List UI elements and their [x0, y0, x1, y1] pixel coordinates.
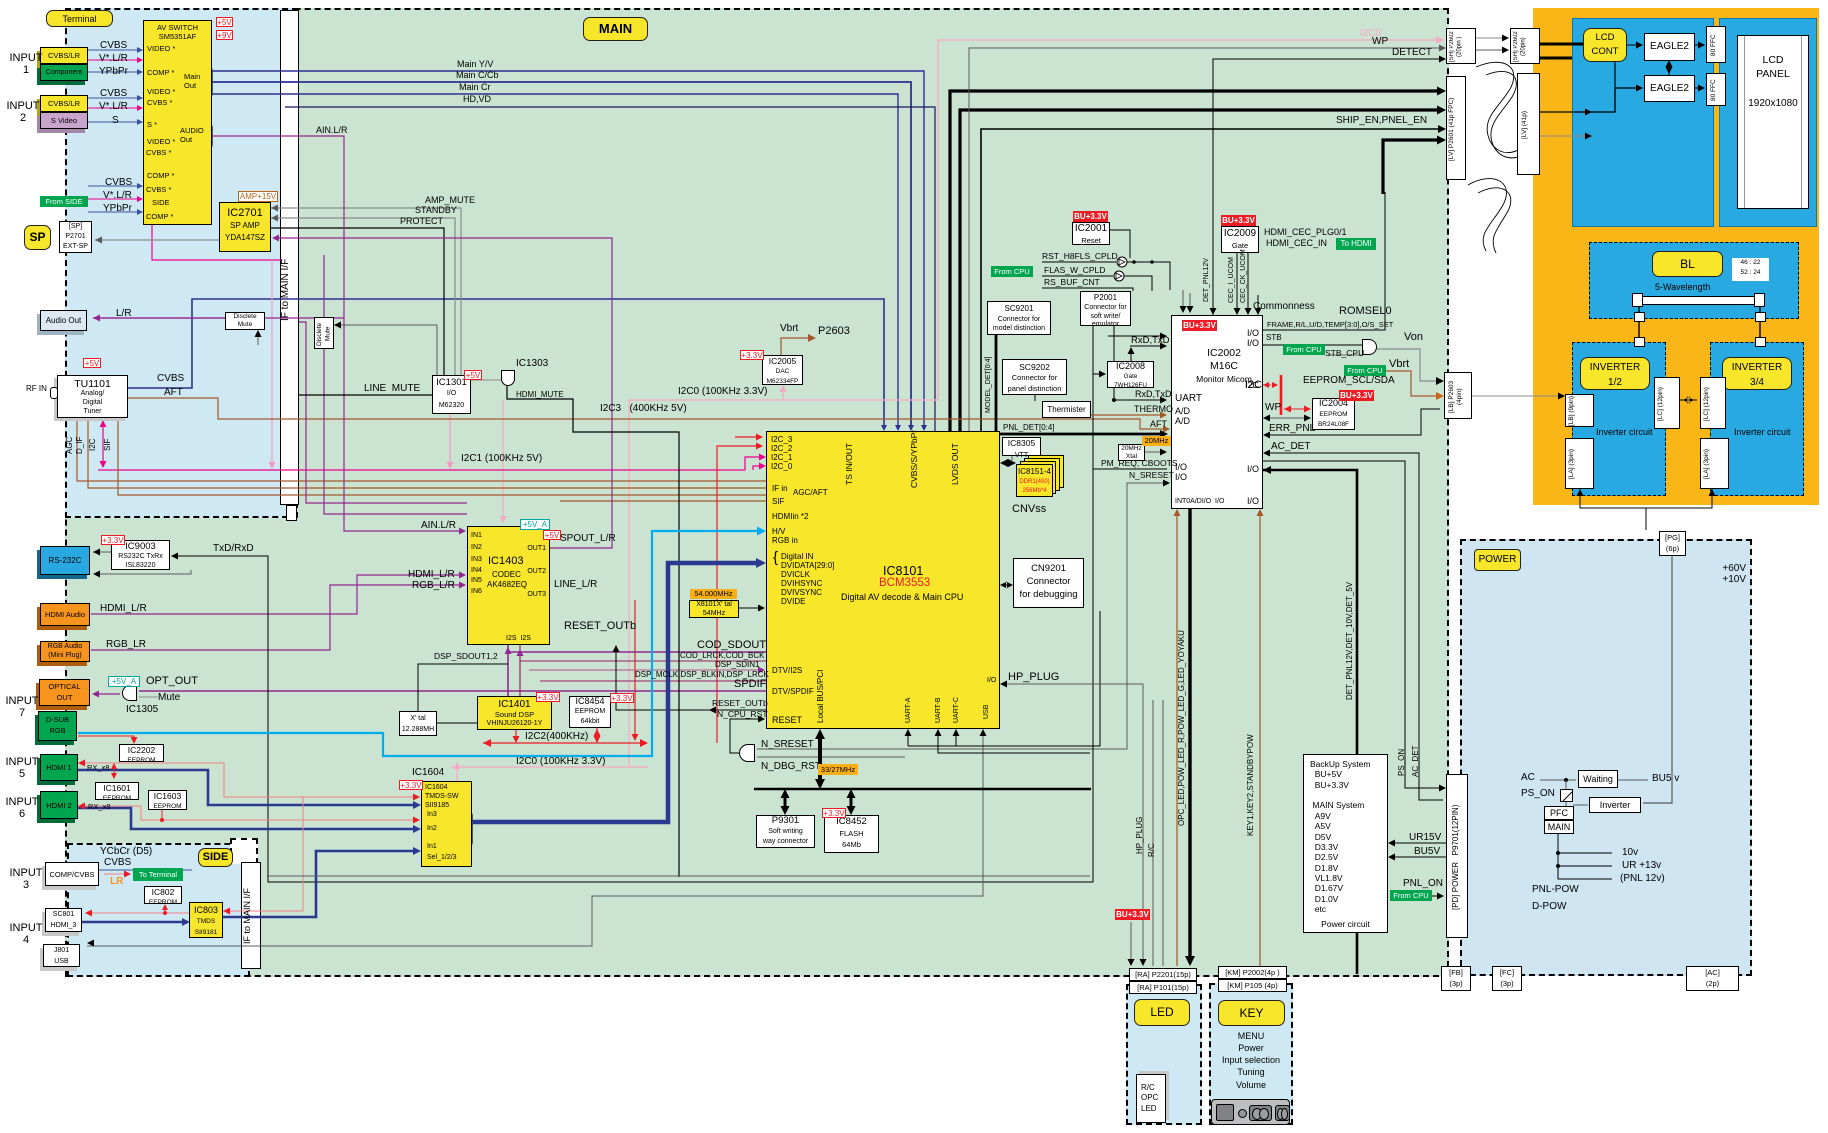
node INPUT 2 label — [3, 101, 43, 125]
node AC_DET label — [1271, 442, 1310, 453]
wire PNL_ON — [1432, 895, 1441, 897]
component PFC box — [1544, 806, 1574, 820]
wire OPT_OUT/SPDIF purple — [139, 690, 766, 692]
KEY region (light blue) — [1209, 983, 1293, 1125]
wire LCDCONT-EAGLE — [1627, 44, 1640, 46]
wire USB — [87, 732, 983, 946]
IC SC9201 — [987, 301, 1051, 335]
IC BackUp System power circuit — [1303, 754, 1388, 933]
wire COMP/CVBS to terminal red — [104, 873, 128, 875]
wire side audio purple 1 — [299, 322, 467, 503]
wire I2C0 mid (100KHz 3.3V) — [629, 399, 938, 401]
lamp bar — [1637, 296, 1760, 305]
node AFT label — [1150, 420, 1167, 430]
wire I2C0 vertical to lower bus — [628, 400, 630, 767]
node signal labels side input — [105, 178, 132, 189]
wire I2C0 drop to IC1604 — [456, 769, 458, 781]
IC IC8101 BCM3553 — [766, 431, 1000, 729]
wire local bus — [754, 788, 1091, 791]
node arrows into IC8101 video inputs — [881, 425, 927, 431]
wire disclete mute arrow — [334, 325, 437, 375]
node PM_REQ label — [1101, 459, 1178, 468]
connector [RA]P2201 — [1129, 968, 1197, 981]
node YCbCr CVBS labels — [100, 847, 152, 858]
wire side V*.L/R — [88, 198, 140, 200]
connector HDMI 2 — [40, 791, 78, 819]
wire SHIP_EN,PNEL_EN — [981, 129, 1443, 431]
wire input2 CVBS — [88, 97, 140, 99]
wire I2C2 red bus — [483, 742, 645, 744]
wire Vbrt brown — [1385, 371, 1440, 396]
IC IC2001 Reset — [1072, 222, 1110, 245]
wire I2C_3 red stub — [735, 436, 760, 438]
wire IC8454 to I2C2 — [596, 728, 598, 741]
node PNL-POW label — [1532, 885, 1579, 896]
node INPUT 7 label — [4, 696, 40, 720]
wire IC1401 to I2C2 — [515, 730, 517, 741]
connector [FB](3p) — [1441, 966, 1471, 991]
wire IC803 salmon to IC1604 — [223, 797, 360, 911]
connector COMP/CVBS — [45, 862, 99, 886]
wire input1 YPbPr — [88, 71, 140, 73]
node EEPROM_SCL/SDA label — [1303, 376, 1395, 387]
node STB label — [1266, 334, 1282, 343]
wire COMP/CVBS blue out — [99, 869, 192, 871]
connector CVBS/LR input2 — [40, 95, 88, 112]
wire HDMI2 TMDS — [78, 808, 417, 829]
node ROMSEL0 label — [1339, 306, 1392, 318]
IC EAGLE2 bottom — [1644, 75, 1695, 102]
wire RS_BUF_CNT — [1042, 288, 1133, 291]
wire lamp bar left drop — [1638, 305, 1640, 342]
label To HDMI — [1336, 238, 1376, 250]
wire RGB_LR purple — [91, 585, 463, 650]
label From CPU power — [1390, 890, 1432, 901]
node DSP_MCLK label — [635, 671, 769, 680]
connector HDMI Audio — [40, 603, 90, 626]
wire DVI thick blue IC1604 to IC8101 — [472, 563, 760, 822]
node WP label — [1265, 403, 1281, 414]
node RST_H8FLS_CPLD label — [1042, 252, 1118, 261]
gate N_SRESET — [739, 744, 755, 762]
wire PS_ON switch drop — [1565, 780, 1567, 789]
gate IC1305 — [122, 685, 137, 701]
wire input2 V*.L/R — [88, 107, 140, 109]
component Disclete Mute box1 — [225, 312, 265, 330]
wire BU5V — [1391, 856, 1446, 858]
wire 33/27MHz thick arrow — [818, 733, 822, 786]
wire IC2008 arrow — [1093, 373, 1103, 375]
bracket AUDIO Out — [204, 124, 212, 148]
wire I2C3/AFT brown from tuner — [128, 398, 1167, 429]
wire Audio Out L/R purple — [93, 317, 344, 319]
wire HDMI1 TMDS — [78, 770, 417, 805]
wire OPC_LED thick — [1174, 467, 1190, 963]
wire extra RA line — [1162, 700, 1164, 966]
wire LV2 outputs — [1540, 111, 1588, 113]
wire X'tal to IC1401 — [437, 722, 477, 724]
node P2603 label — [818, 326, 850, 338]
IC TU1101 tuner — [57, 375, 128, 418]
IC IC8151-4 DDR stack — [1028, 455, 1064, 488]
label From CPU 3 — [991, 266, 1033, 277]
wire PG drop — [1643, 556, 1672, 803]
wire WP — [969, 48, 1443, 431]
power label +5V tuner — [83, 358, 101, 368]
bar notch above side IF — [230, 838, 258, 864]
label From SIDE — [40, 196, 88, 207]
wire OPT gate output — [95, 693, 120, 695]
IC IC1601 — [95, 782, 139, 800]
node I2C0 label mid — [678, 387, 768, 398]
connector [SH]P2602 right — [1510, 28, 1540, 64]
wire PNL_DET thick — [996, 335, 1164, 434]
wire PROTECT black — [271, 228, 444, 375]
connector Audio Out — [40, 310, 87, 331]
power label +5V IC1301 — [464, 370, 482, 380]
IC P2001 — [1080, 291, 1131, 326]
wire X8101 xtal link — [739, 607, 762, 609]
power label 33/27MHz — [818, 764, 858, 775]
node HDMI_L/R RGB_L/R labels at IC1403 — [408, 570, 455, 581]
wire IC8305 drop — [1011, 456, 1013, 462]
node WP top label — [1372, 37, 1388, 48]
wire I2C0 branch IC1403 — [502, 400, 504, 521]
panel INVERTER 1/2 label — [1580, 357, 1650, 390]
power label +9V — [216, 30, 233, 40]
wire SIDE out black — [267, 875, 1090, 877]
panel INVERTER 3/4 label — [1722, 357, 1792, 390]
panel BL label — [1652, 251, 1723, 277]
connector SC801 HDMI_3 — [45, 908, 82, 932]
component MAIN box — [1544, 820, 1574, 834]
node COD_SDOUT label — [697, 640, 766, 652]
label SP — [24, 225, 51, 250]
wire Vbrt IC2005 — [781, 338, 812, 355]
wire DET_PNL12V vertical — [1263, 470, 1357, 974]
wire waiting-BU5v — [1618, 779, 1648, 781]
wire CN9201 arrows — [1003, 584, 1010, 586]
node FLAS_W_CPLD label — [1044, 266, 1105, 275]
wire Von output — [1377, 349, 1440, 381]
node INPUT 6 label — [4, 797, 40, 821]
node X'tal 12.288MH — [399, 711, 437, 736]
connector [LC](12pin) right — [1700, 377, 1726, 429]
node I2C1 label — [461, 454, 542, 465]
connector J801 USB — [43, 944, 80, 967]
node BU5V label — [1414, 847, 1440, 858]
BL blue sub-panel — [1589, 242, 1799, 319]
connector [PG](6p) — [1659, 531, 1686, 556]
wire DSP_MCLK,DSP_BLKIN,DSP_LRCK — [540, 680, 766, 682]
wire I2C0 branch to IC2005 — [782, 388, 784, 400]
wire THERMO — [1091, 414, 1164, 416]
power label 54.000MHz — [690, 589, 737, 599]
power label +5V_A IC1403 — [520, 519, 550, 530]
wire side YPbPr — [88, 211, 140, 213]
node AIN.L/R label at IC1403 — [421, 521, 456, 532]
node AC_DET rotated — [1412, 740, 1421, 782]
node FRAME label — [1267, 321, 1393, 329]
wire DDR link — [1003, 462, 1013, 465]
node RS_BUF_CNT label — [1044, 278, 1100, 287]
bracket Main Out — [204, 67, 212, 97]
wire SIF lower brown to IC8101 — [560, 500, 766, 502]
MAIN label — [583, 17, 648, 41]
bracket IC1604 out — [465, 812, 472, 846]
node 10v / UR +13v labels — [1622, 848, 1638, 859]
wire BU+3.3V LED drop — [1130, 922, 1132, 962]
node DETECT label — [1392, 48, 1432, 59]
gate IC1303 — [501, 370, 515, 386]
Terminal board region (light blue) — [65, 8, 298, 518]
node D-POW label — [1532, 902, 1566, 913]
IC IC2002 M16C — [1171, 315, 1263, 509]
wire SC801 HDMI3 navy — [82, 921, 186, 924]
wire LA loop — [1580, 489, 1712, 508]
wire IC2001 links — [1110, 230, 1130, 258]
wire discrete mute1 link — [93, 317, 225, 319]
connector RGB Audio — [40, 641, 90, 662]
IC IC2004 EEPROM — [1312, 398, 1355, 430]
wire Main Y/V (blue bus) — [212, 71, 924, 428]
wire D_IF brown — [88, 418, 766, 488]
node N_DBG_RST label — [761, 762, 821, 773]
IC IC802 — [144, 886, 182, 904]
wire SP out gray — [95, 239, 219, 241]
node N_SRESET label2 — [1129, 471, 1174, 480]
node Commonness label — [1253, 302, 1315, 313]
connector [LB](9pin) — [1565, 394, 1594, 427]
power label BU+3.3V IC2002 — [1182, 320, 1217, 331]
node LINE_L/R label — [554, 580, 597, 591]
wire input1 CVBS — [88, 49, 140, 51]
label From CPU Vbrt — [1344, 365, 1386, 376]
node BL bottom connector squares — [1634, 312, 1645, 322]
INVERTER 3/4 blue sub-panel — [1710, 342, 1804, 496]
INVERTER 1/2 blue sub-panel — [1572, 342, 1666, 496]
wire pink drop to I2C1 — [271, 260, 273, 466]
wire mute1 up arrow — [257, 332, 259, 345]
node DET_PNL12V rotated right — [1346, 600, 1355, 700]
IC IC8454 EEPROM — [569, 696, 611, 728]
node RGB_LR label — [106, 640, 146, 651]
node I2C3 label — [600, 404, 687, 415]
SIDE board region (light blue) — [67, 843, 250, 977]
node OPT_OUT label — [146, 676, 198, 688]
wire HDMI_MUTE — [507, 386, 679, 877]
node PNL_ON label — [1403, 879, 1443, 890]
node N_SRESET label — [761, 740, 814, 751]
node PNL_DET label — [1003, 424, 1055, 433]
wire I2C red bar — [1280, 375, 1283, 415]
wire I2C0 pink top — [938, 40, 1440, 400]
component Inverter box — [1589, 797, 1641, 813]
node CNVss label — [1012, 504, 1046, 516]
LED region (light blue) — [1126, 984, 1202, 1125]
node +60V +10V labels — [1712, 564, 1746, 586]
connector [KM]P105 — [1218, 979, 1287, 992]
wire EAGLE-FFC links — [1695, 44, 1702, 46]
IC SC9202 — [1002, 359, 1067, 395]
wire HP_PLUG — [1003, 684, 1143, 963]
wire IC802 red arrows — [164, 905, 166, 913]
power label +3.3V IC1401 — [536, 692, 560, 702]
IC IC1603 — [148, 790, 187, 810]
component R/C OPC LED box — [1136, 1074, 1166, 1123]
node INPUT 3 label — [8, 868, 44, 892]
node CVBS/AFT labels — [157, 374, 184, 385]
connector [LB]P2603 — [1444, 372, 1472, 419]
wire CEC verticals — [1236, 253, 1238, 312]
connector [RA]P101 — [1129, 981, 1197, 994]
node CEC_CK_UCOM rotated — [1240, 256, 1248, 303]
connector CVBS/LR input1 — [40, 47, 88, 64]
node AIN.L/R top label — [316, 126, 348, 136]
connector [PD] POWER — [1446, 774, 1468, 938]
wire IC1601 red drop — [113, 765, 115, 776]
connector Component input1 — [40, 64, 88, 81]
wire AMP_MUTE gray — [271, 208, 461, 375]
node INPUT 5 label — [4, 757, 40, 781]
wire I2C0 lower bus — [451, 766, 648, 768]
node KEY1 rotated — [1247, 690, 1256, 880]
wire AGC brown — [77, 418, 766, 481]
IC IC2009 Gate — [1221, 226, 1259, 253]
node DET_PNL12V rotated — [1203, 258, 1211, 303]
node RxD,TxD labels — [1131, 336, 1170, 346]
wire N_DBG_RST — [757, 756, 905, 758]
wire PS_ON — [1263, 461, 1443, 788]
IC IC803 TMDS — [189, 902, 223, 938]
wire Main C/Cb — [212, 82, 911, 428]
wire ERR_PNL — [1266, 409, 1440, 435]
wire LINE_MUTE — [299, 394, 432, 396]
wire lamp bar right drop — [1759, 305, 1761, 342]
wire UART links right — [908, 611, 1100, 746]
connector [KM]P2002 — [1218, 966, 1287, 979]
wire EAGLE-EAGLE vertical — [1668, 61, 1670, 75]
node LINE_MUTE label — [364, 384, 420, 395]
node IC1604 label — [412, 768, 444, 779]
connector [LV]P2601 — [1446, 76, 1466, 180]
IC IC1401 Sound DSP — [477, 696, 552, 730]
IC CN9201 — [1013, 558, 1084, 608]
LED label — [1134, 999, 1190, 1026]
wire STB to Von gate — [1263, 344, 1362, 346]
wire FLAS_W_CPLD — [1042, 275, 1113, 277]
node HDMI_L/R label — [100, 604, 147, 615]
node I2C label left of bar — [1245, 380, 1262, 392]
node SHIP_EN label — [1336, 116, 1427, 127]
panel LCD CONT label — [1583, 28, 1627, 62]
wire ROMSEL0 frame — [1263, 192, 1385, 330]
wire N_SRESET from gate — [757, 483, 1167, 749]
wire Mute input gray — [139, 696, 158, 698]
wire AIN.L/R purple — [212, 136, 463, 531]
wire I2C2 riser to IC8101 I2C_2 — [717, 446, 760, 743]
node PS_ON label — [1521, 789, 1555, 800]
power label +3.3V IC9003 — [101, 535, 125, 545]
wire CPLD outputs to IC2002 top — [1182, 290, 1184, 310]
node BU5 v label — [1652, 774, 1679, 785]
IC 20MHz Xtal — [1118, 444, 1145, 461]
connector OPTICAL OUT — [39, 679, 90, 706]
node DSP_SDOUT1,2 label — [434, 652, 498, 661]
wire IC1301 gate link — [471, 379, 501, 381]
wire IC2004 gray link — [1263, 417, 1308, 419]
connector [SH]P2602 left — [1446, 28, 1476, 64]
LCD PANEL blue sub-panel — [1719, 18, 1817, 227]
wire RESET_OUTb arrow left — [709, 707, 716, 714]
node RX_x8 label1 — [87, 764, 110, 772]
IC P9301 — [756, 815, 815, 848]
wire KEY1 brown 1 — [1176, 512, 1178, 966]
power label BU+3.3V IC2009 — [1221, 215, 1256, 226]
IC IC2008 — [1107, 361, 1154, 388]
wire inverter-PFC — [1573, 804, 1588, 806]
power label +3.3V IC8452 — [822, 808, 846, 818]
connector [LV](41p) — [1517, 73, 1540, 175]
connector HDMI 1 — [40, 754, 78, 781]
wire I2C2 riser 635 — [634, 600, 636, 738]
node MODEL_DET label — [985, 345, 993, 425]
node 5-Wavelength label — [1655, 283, 1710, 293]
power label BU+3.3V LED — [1115, 909, 1150, 920]
wire N_CPU_RST — [730, 719, 762, 753]
wire RST_H8FLS_CPLD — [1042, 261, 1116, 263]
label From CPU STB — [1283, 344, 1325, 355]
wire UR15V — [1391, 842, 1446, 844]
node CEC_I_UCOM rotated — [1228, 258, 1236, 303]
wire P9301 arrow — [784, 792, 787, 812]
connector RS-232C — [40, 546, 90, 575]
wire DETECT — [1213, 59, 1443, 315]
node OPC_LED rotated — [1178, 608, 1187, 848]
node Main video labels — [457, 60, 493, 70]
node Vbrt label — [780, 324, 798, 335]
node I2C0 label lower — [516, 757, 606, 768]
wire PM_REQ CBOOTS — [1093, 468, 1167, 470]
wire RS232 link1 — [93, 551, 112, 553]
node signal labels input2 — [100, 89, 127, 100]
IC IC2202 — [119, 744, 164, 762]
node HDMI_MUTE label — [516, 391, 564, 400]
wire RxD,TxD pair — [1108, 335, 1164, 337]
node INPUT 1 label — [6, 53, 46, 77]
connector [AC](2p) — [1686, 966, 1739, 991]
power label +3.3V IC2005 — [740, 350, 764, 360]
wire IC1603 red drop — [161, 810, 163, 820]
wire I2C dashes — [1263, 384, 1278, 386]
node AC label — [1521, 773, 1535, 784]
power label 20MHz — [1142, 436, 1171, 446]
IC IC1301 — [432, 375, 471, 414]
node R/C rotated — [1148, 838, 1157, 863]
wire SH-SH links — [1476, 37, 1506, 39]
wire Main Cr — [212, 94, 898, 428]
wire RX_x8 HDMI2 salmon — [81, 806, 417, 820]
wire STANDBY gray — [271, 218, 455, 375]
IC Thermister — [1042, 401, 1091, 418]
wire AC-waiting — [1540, 779, 1576, 781]
node N_CPU_RST label — [717, 710, 768, 719]
wire UART stubs — [907, 732, 909, 746]
wire SC801 salmon — [88, 912, 189, 914]
wire input1 V*.L/R — [88, 59, 140, 61]
power label +5V — [216, 17, 233, 27]
wire side audio purple 2 — [324, 255, 467, 514]
